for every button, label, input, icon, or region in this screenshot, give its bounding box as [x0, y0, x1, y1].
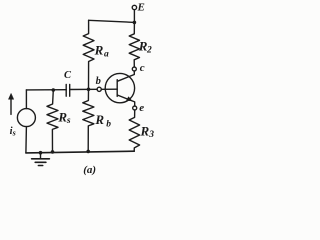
terminal b circle — [97, 87, 101, 91]
wire top rail — [89, 20, 135, 22]
svg-text:s: s — [66, 116, 71, 126]
svg-text:2: 2 — [146, 46, 152, 56]
svg-text:R: R — [94, 42, 104, 57]
terminal e circle — [133, 106, 137, 110]
svg-text:s: s — [12, 128, 16, 137]
node A junction dot top rail — [133, 21, 137, 25]
resistor R2 — [129, 22, 139, 66]
svg-text:c: c — [140, 62, 145, 74]
arrow is — [10, 98, 12, 114]
svg-text:e: e — [139, 102, 144, 114]
capacitor C plates — [65, 84, 67, 96]
svg-text:R: R — [94, 112, 104, 127]
node junction dot ground — [39, 151, 43, 155]
resistor Rb — [83, 89, 94, 151]
svg-text:(a): (a) — [83, 164, 96, 176]
svg-text:E: E — [137, 1, 145, 13]
svg-text:a: a — [104, 49, 109, 59]
resistor Rs — [47, 90, 58, 152]
terminal c circle — [132, 67, 136, 71]
node junction dot Rs bottom — [51, 150, 55, 154]
wire c to transistor collector — [117, 71, 134, 81]
wire source top — [25, 90, 27, 109]
transistor base bar — [116, 80, 118, 97]
wire bottom rail — [26, 151, 134, 153]
wire b to base bar — [101, 88, 117, 90]
wire capacitor to base — [70, 88, 97, 90]
wire source bottom — [25, 127, 28, 153]
node junction dot Rb bottom — [86, 150, 90, 154]
wire base rail — [26, 89, 66, 91]
resistor R3 — [129, 110, 139, 151]
svg-text:b: b — [96, 76, 101, 87]
emitter arrowhead — [127, 97, 132, 101]
svg-text:b: b — [106, 120, 111, 130]
node junction dot Ra-Rb — [87, 88, 91, 92]
svg-text:C: C — [64, 70, 72, 81]
transistor Q1 circle — [105, 73, 134, 102]
transistor emitter with arrow — [117, 95, 134, 106]
current source is circle — [17, 109, 35, 127]
svg-text:R: R — [57, 110, 67, 125]
wire E to top rail — [133, 10, 135, 23]
svg-text:3: 3 — [148, 130, 154, 140]
node junction dot Rs top — [52, 88, 56, 92]
terminal E circle — [132, 5, 136, 9]
ground — [40, 153, 42, 159]
resistor Ra — [83, 20, 94, 89]
svg-text:R: R — [140, 123, 150, 138]
